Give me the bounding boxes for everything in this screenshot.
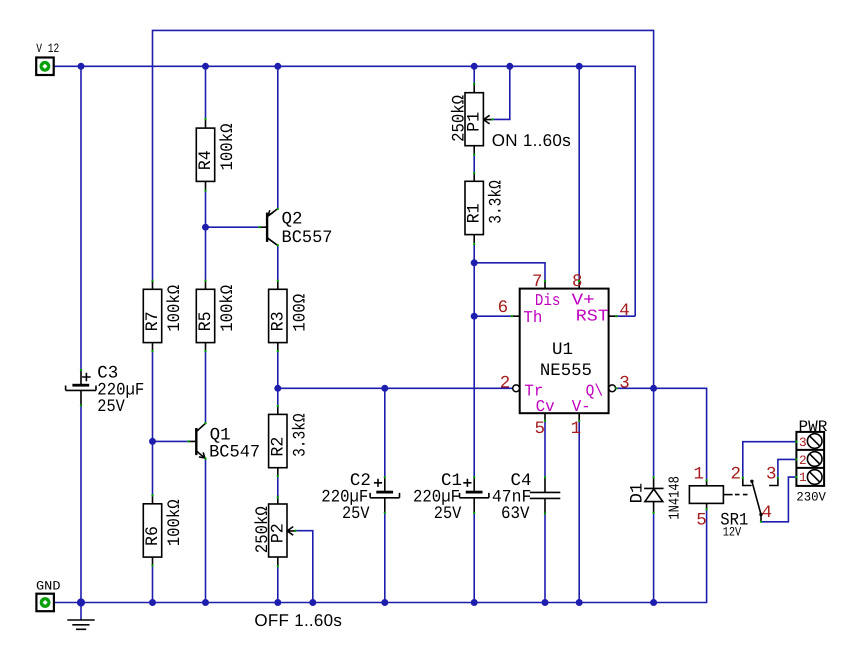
svg-text:100kΩ: 100kΩ bbox=[218, 124, 238, 171]
svg-text:100kΩ: 100kΩ bbox=[165, 499, 185, 546]
svg-text:1N4148: 1N4148 bbox=[667, 476, 684, 520]
svg-text:PWR: PWR bbox=[799, 418, 828, 436]
junction R7 bottom / Q1 base bbox=[149, 438, 156, 445]
wire top outer loop (Q output to R7 top) bbox=[153, 30, 654, 388]
svg-text:230V: 230V bbox=[796, 489, 826, 504]
svg-text:D1: D1 bbox=[628, 483, 648, 504]
svg-text:3.3kΩ: 3.3kΩ bbox=[290, 413, 310, 457]
svg-text:100kΩ: 100kΩ bbox=[165, 285, 185, 332]
relay SR1 switch bbox=[730, 464, 777, 523]
junction R1 / Dis wire bbox=[471, 259, 478, 266]
wire Q2 R3 R2 P2 column bbox=[277, 66, 279, 602]
svg-text:25V: 25V bbox=[342, 504, 370, 524]
wire P1 wiper to rail bbox=[493, 66, 510, 119]
wire R7 R6 column bbox=[152, 351, 154, 602]
wire V- pin 1 column bbox=[578, 421, 580, 603]
wire Cv pin 5 to C4 bbox=[544, 421, 546, 603]
svg-text:7: 7 bbox=[532, 272, 543, 292]
svg-text:3: 3 bbox=[799, 435, 807, 450]
svg-text:R7: R7 bbox=[143, 311, 163, 331]
wire bottom GND rail bbox=[54, 509, 706, 602]
wire R1 to Dis pin 7 bbox=[474, 263, 545, 281]
capacitor C2 bbox=[321, 471, 399, 524]
relay SR1 coil bbox=[689, 465, 751, 540]
svg-text:2: 2 bbox=[799, 453, 807, 468]
svg-text:R6: R6 bbox=[143, 526, 163, 546]
svg-text:25V: 25V bbox=[97, 397, 125, 417]
junction Th wire / C1 column bbox=[471, 313, 478, 320]
connector PWR bbox=[796, 418, 827, 504]
junction trigger / C2 bbox=[381, 385, 388, 392]
svg-text:250kΩ: 250kΩ bbox=[449, 95, 469, 142]
terminal V12 bbox=[36, 41, 59, 75]
svg-text:R1: R1 bbox=[465, 203, 485, 223]
diode D1 bbox=[628, 476, 684, 520]
junction GND rail / ground bbox=[77, 598, 85, 606]
wire Q1 base bbox=[153, 440, 189, 442]
svg-text:GND: GND bbox=[36, 579, 61, 594]
svg-text:OFF 1..60s: OFF 1..60s bbox=[254, 611, 342, 630]
svg-text:250kΩ: 250kΩ bbox=[253, 506, 273, 553]
junction R4 bottom / Q2 base bbox=[202, 224, 209, 231]
svg-text:8: 8 bbox=[572, 272, 583, 292]
svg-text:3: 3 bbox=[766, 464, 777, 484]
junction V12 rail / C3 bbox=[78, 63, 85, 70]
svg-text:V 12: V 12 bbox=[36, 41, 59, 56]
svg-text:4: 4 bbox=[762, 503, 773, 523]
junction rail / V+ bbox=[576, 63, 583, 70]
svg-text:BC557: BC557 bbox=[282, 228, 333, 248]
svg-text:3: 3 bbox=[619, 374, 630, 394]
svg-text:1: 1 bbox=[571, 419, 582, 439]
capacitor C3 bbox=[66, 364, 145, 417]
wire RST pin 4 bbox=[616, 315, 635, 317]
svg-text:R2: R2 bbox=[268, 437, 288, 457]
svg-text:NE555: NE555 bbox=[540, 361, 592, 381]
svg-text:12V: 12V bbox=[723, 525, 742, 540]
svg-text:25V: 25V bbox=[434, 504, 462, 524]
junction R3 / R2 / trigger bbox=[274, 385, 281, 392]
svg-text:RST: RST bbox=[576, 307, 609, 326]
junction GND rail / Q1 emitter bbox=[202, 599, 209, 606]
wire Q output to relay bbox=[616, 388, 706, 480]
wire PWR3 to switch contact 2 bbox=[743, 442, 797, 478]
wire trigger row (R3/R2 to Tr pin) bbox=[278, 387, 513, 389]
potentiometer P1 bbox=[449, 84, 492, 154]
svg-text:ON 1..60s: ON 1..60s bbox=[492, 131, 571, 150]
svg-text:6: 6 bbox=[498, 298, 509, 318]
svg-text:Q2: Q2 bbox=[282, 210, 303, 230]
junction GND rail / P2 wiper bbox=[309, 599, 316, 606]
junction GND rail / C1 bbox=[471, 599, 478, 606]
wire C3 column bbox=[80, 66, 82, 602]
junction GND rail / C4 bbox=[542, 599, 549, 606]
svg-text:100kΩ: 100kΩ bbox=[218, 285, 238, 332]
resistor R6 bbox=[143, 495, 185, 565]
wire P2 wiper to GND bbox=[296, 531, 313, 603]
svg-text:3.3kΩ: 3.3kΩ bbox=[487, 180, 507, 224]
wire C2 column bbox=[384, 388, 386, 602]
resistor R1 bbox=[465, 173, 507, 243]
svg-text:5: 5 bbox=[696, 510, 707, 530]
svg-text:1: 1 bbox=[693, 465, 704, 485]
svg-text:BC547: BC547 bbox=[209, 443, 260, 463]
wire D1 column bbox=[653, 388, 655, 602]
capacitor C1 bbox=[413, 471, 489, 524]
ground symbol bbox=[80, 603, 82, 620]
svg-text:U1: U1 bbox=[552, 340, 573, 360]
svg-text:R4: R4 bbox=[196, 150, 216, 170]
svg-text:63V: 63V bbox=[501, 504, 530, 524]
transistor Q1 bbox=[189, 423, 261, 462]
wire Q2 base bbox=[206, 226, 260, 228]
resistor R5 bbox=[196, 281, 238, 351]
svg-text:5: 5 bbox=[535, 419, 546, 439]
pin dots green bbox=[80, 83, 798, 568]
resistor R4 bbox=[196, 120, 238, 190]
svg-text:Th: Th bbox=[523, 308, 542, 327]
potentiometer P2 bbox=[253, 496, 296, 566]
junction rail / P1 bbox=[471, 63, 478, 70]
svg-text:2: 2 bbox=[730, 464, 741, 484]
wire P1 R1 C1 column bbox=[473, 66, 475, 602]
transistor Q2 bbox=[260, 209, 333, 248]
wire Th pin 6 bbox=[474, 315, 512, 317]
junction GND rail / V- bbox=[576, 599, 583, 606]
junction GND rail / C2 bbox=[381, 599, 388, 606]
wire R4 R5 Q1 column bbox=[205, 66, 207, 602]
resistor R2 bbox=[268, 406, 310, 476]
junction GND rail / R6 bbox=[149, 599, 156, 606]
svg-text:1: 1 bbox=[799, 470, 807, 485]
svg-text:V-: V- bbox=[572, 397, 591, 416]
junction rail / Q2 emitter bbox=[274, 63, 281, 70]
junction GND rail / P2 bbox=[274, 599, 281, 606]
svg-text:R5: R5 bbox=[196, 311, 216, 331]
junction GND rail / D1 bbox=[650, 599, 657, 606]
resistor R7 bbox=[143, 281, 185, 351]
wire V+ pin 8 column bbox=[578, 66, 580, 281]
wire PWR1 to switch contact 4 bbox=[761, 477, 796, 522]
junction rail / P1 wiper bbox=[506, 63, 513, 70]
junction rail / R4 bbox=[202, 63, 209, 70]
svg-text:Cv: Cv bbox=[536, 397, 555, 416]
junction Q output / D1 / loop bbox=[650, 385, 657, 392]
resistor R3 bbox=[268, 281, 310, 351]
svg-text:100Ω: 100Ω bbox=[290, 294, 310, 332]
wire main V12 rail bbox=[54, 66, 635, 316]
capacitor C4 bbox=[492, 471, 560, 524]
terminal GND bbox=[36, 579, 61, 612]
wire PWR2 to switch contact 3 bbox=[778, 459, 797, 477]
op-amp U1 NE555 bbox=[498, 272, 630, 439]
svg-text:4: 4 bbox=[619, 301, 630, 321]
svg-text:2: 2 bbox=[500, 374, 511, 394]
svg-text:R3: R3 bbox=[268, 311, 288, 331]
